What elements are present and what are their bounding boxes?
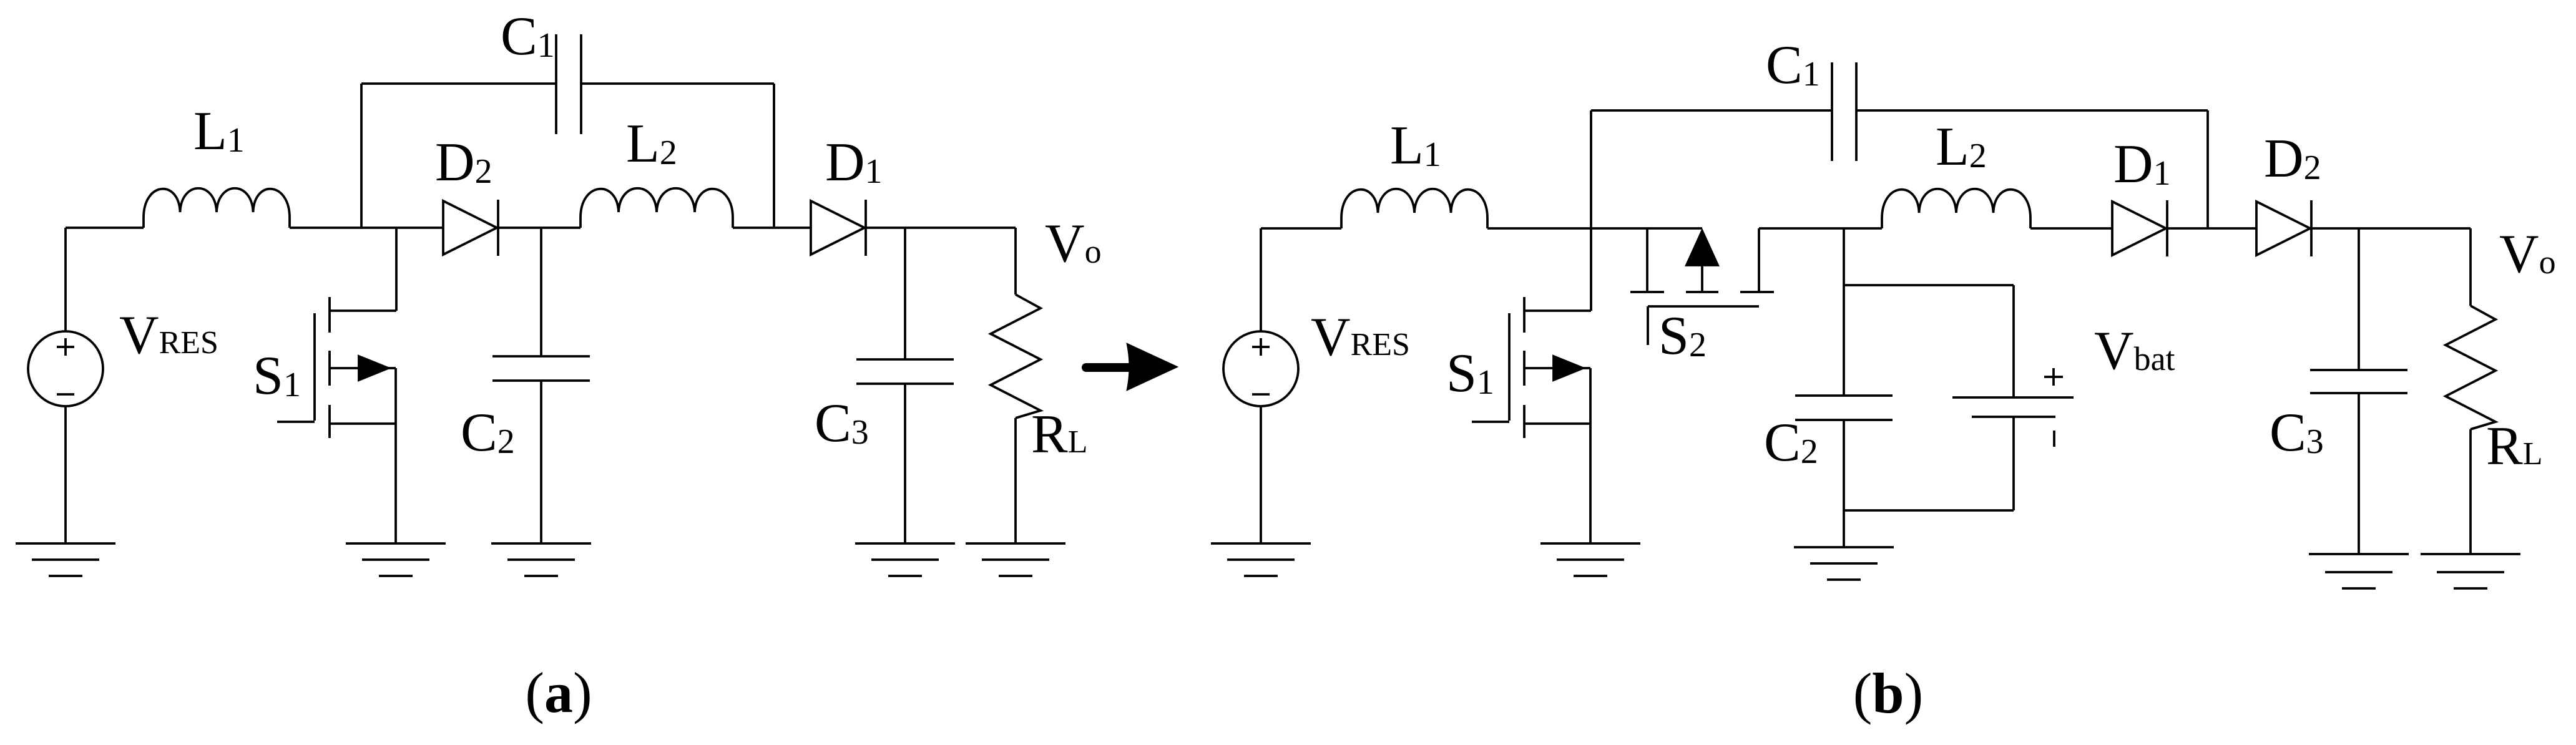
svg-text:(a): (a) [525,661,592,724]
svg-text:(b): (b) [1853,661,1923,725]
